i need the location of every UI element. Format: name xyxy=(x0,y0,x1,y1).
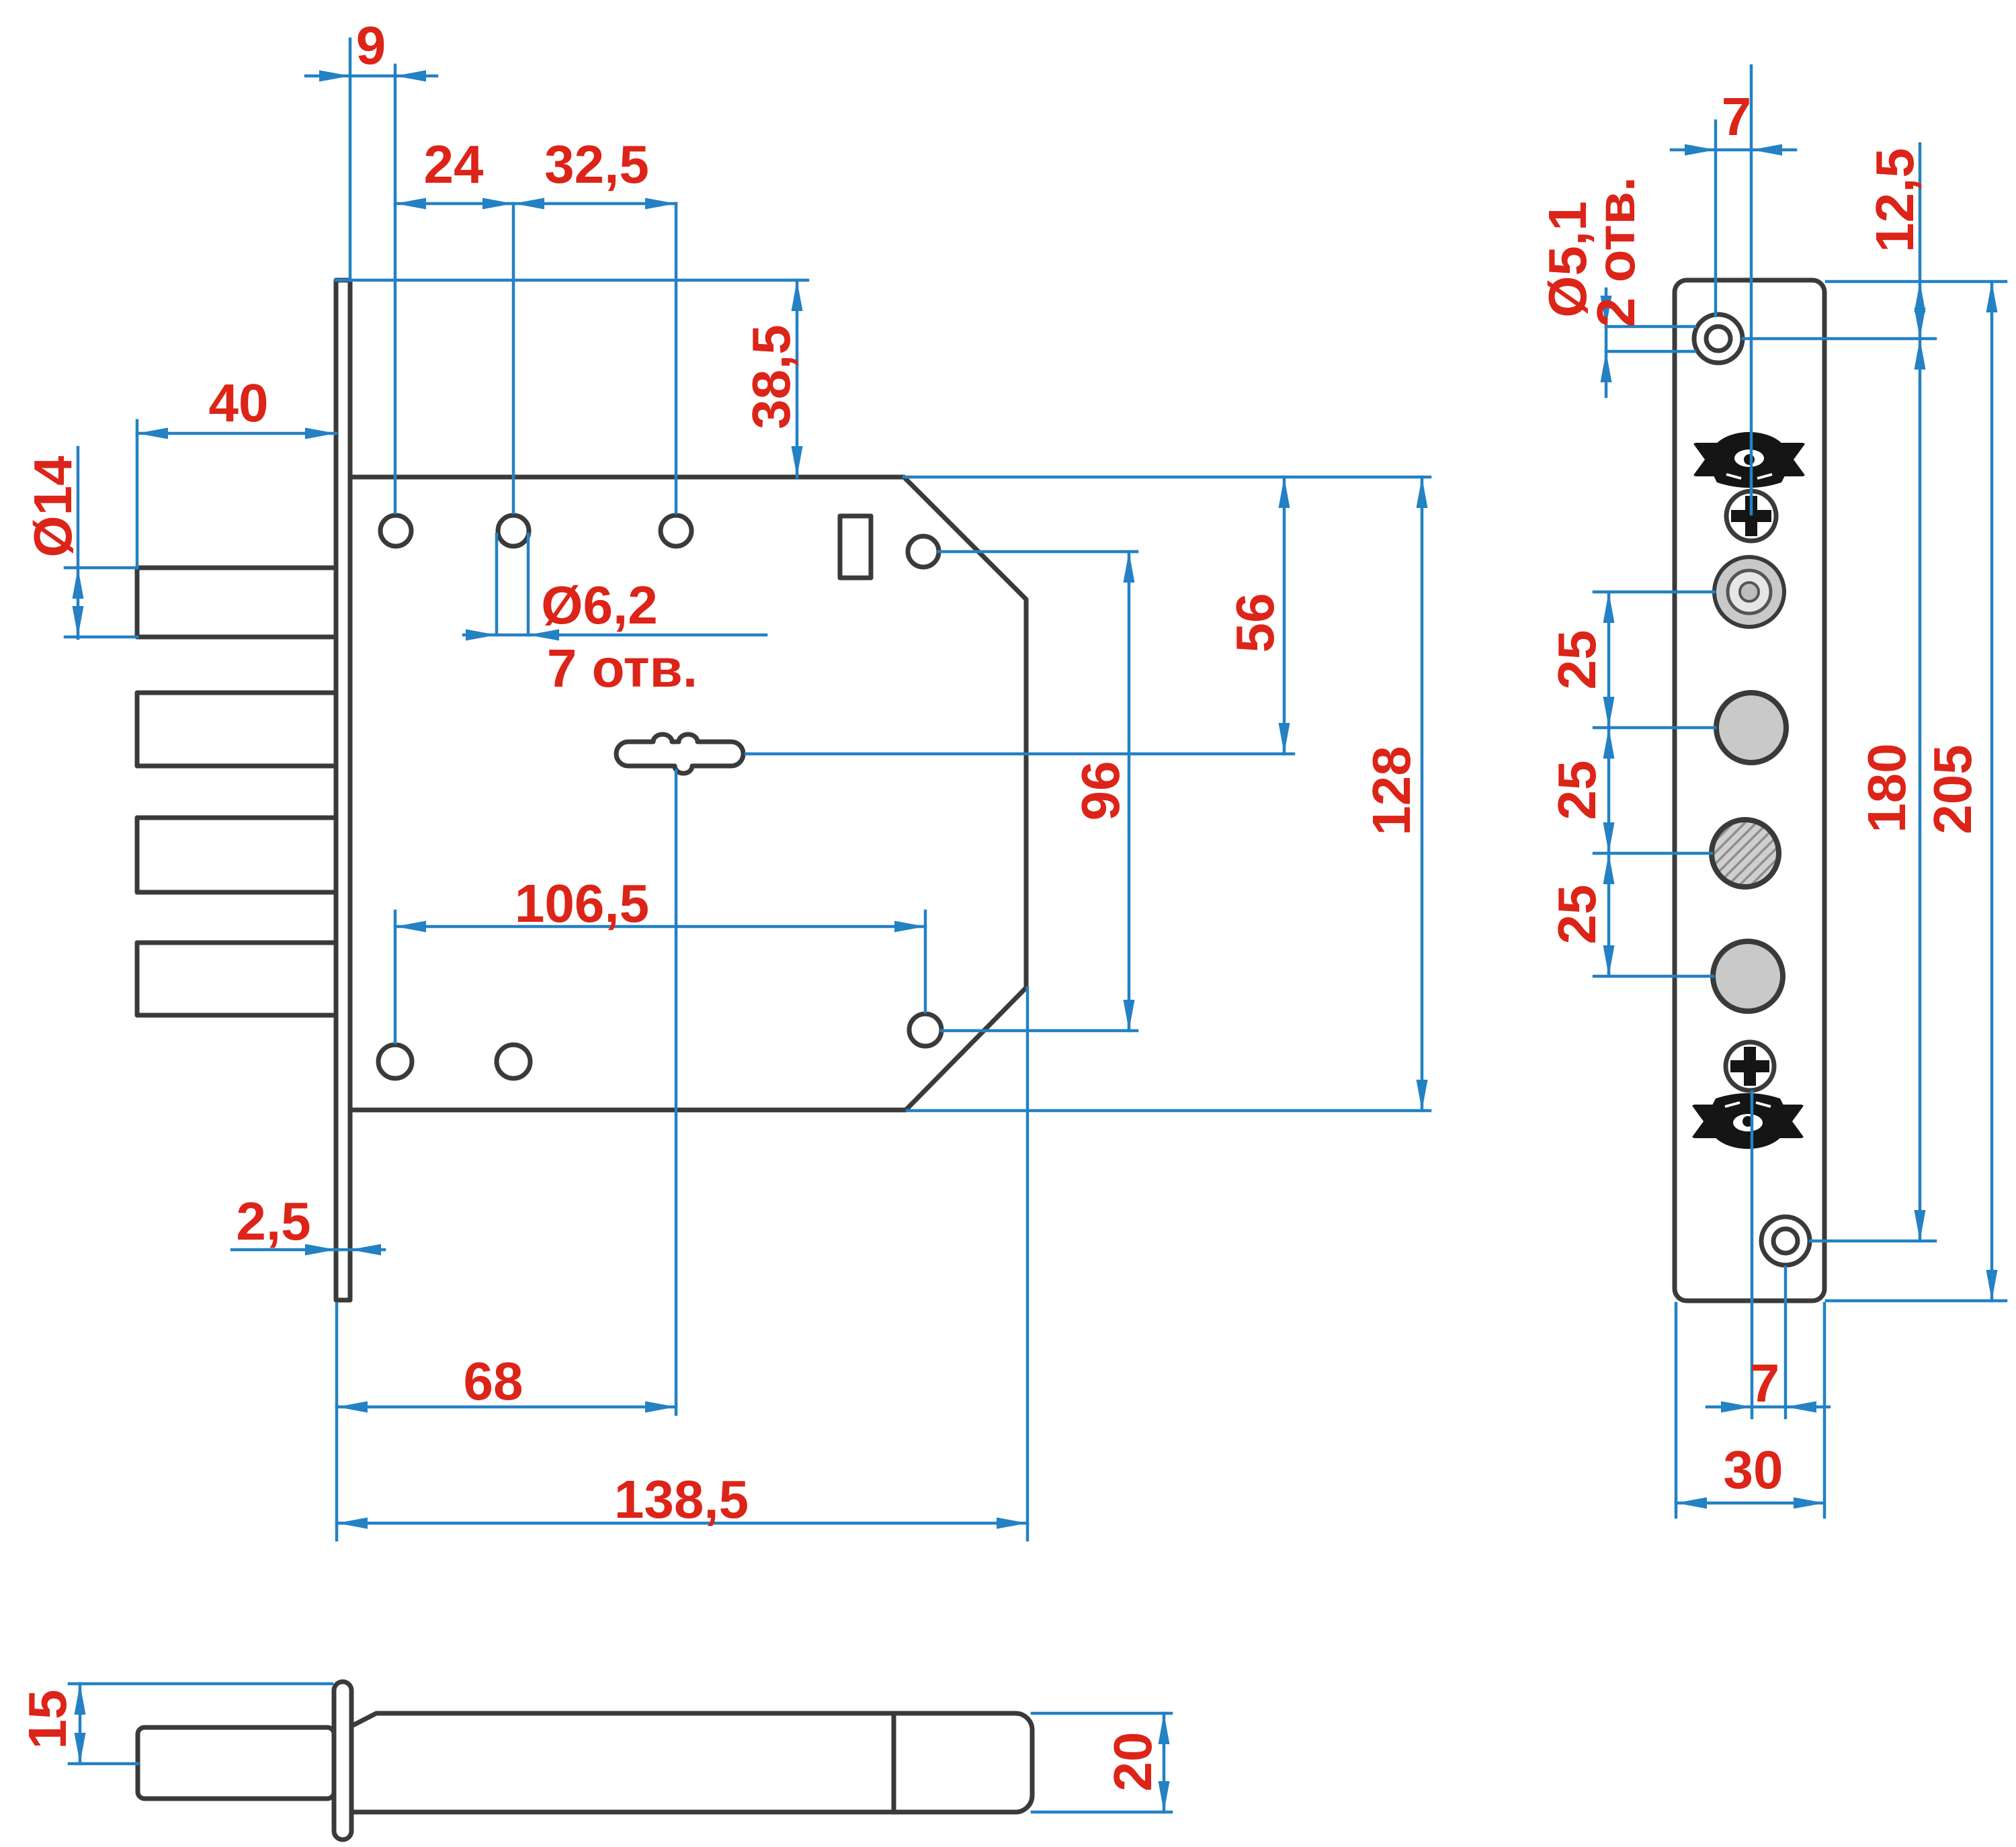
faceplate (edge view) xyxy=(336,280,350,1300)
ext plate bottom corners xyxy=(1676,1303,1824,1517)
leader washer left xyxy=(1594,591,1714,594)
dim 38,5 line xyxy=(796,280,799,477)
leader keyhole right xyxy=(746,753,1294,756)
svg-text:40: 40 xyxy=(209,373,269,433)
ext body right corner down xyxy=(1026,988,1030,1540)
svg-text:12,5: 12,5 xyxy=(1865,148,1925,253)
bolt 3 xyxy=(137,818,336,892)
leader housing bottom right xyxy=(1032,1811,1171,1814)
dim 9 line xyxy=(306,75,437,78)
RIGHT-BLACK xyxy=(1675,280,1824,1301)
dim 128 line xyxy=(1421,477,1424,1111)
bolt 2 xyxy=(137,693,336,766)
dim d5,1 line xyxy=(1605,289,1608,396)
leader hole3 left xyxy=(1594,975,1713,978)
BOTTOM-BLACK xyxy=(138,1682,1032,1840)
ext faceplate right xyxy=(349,39,352,280)
dim 106,5 line xyxy=(395,925,925,929)
leader d6.2 xyxy=(464,634,766,637)
svg-text:25: 25 xyxy=(1547,761,1607,820)
ext hole lower right up xyxy=(924,911,927,1012)
svg-text:2 отв.: 2 отв. xyxy=(1586,177,1646,327)
dim 7 top line xyxy=(1671,148,1796,152)
leader body top right xyxy=(904,476,1430,479)
lock body outline xyxy=(350,477,1026,1110)
ext phillips bottom down xyxy=(1751,1092,1754,1418)
leader faceplate top xyxy=(336,279,808,282)
svg-text:68: 68 xyxy=(464,1351,523,1411)
bolt 1 (top deadbolt) xyxy=(137,568,336,637)
svg-text:25: 25 xyxy=(1547,885,1607,945)
dim 30 line xyxy=(1676,1502,1824,1505)
brand logo bottom (rotated) xyxy=(1691,1093,1805,1149)
ext phillips top xyxy=(1750,66,1753,514)
phillips screw bottom xyxy=(1726,1042,1774,1090)
ext hole1 xyxy=(394,65,397,513)
svg-text:2,5: 2,5 xyxy=(236,1191,310,1251)
ext bolt1 left xyxy=(136,421,139,568)
bolt hole 2 (front, hatched) xyxy=(1712,820,1779,887)
dim 7 bottom line xyxy=(1707,1406,1829,1409)
bolt 4 xyxy=(137,943,336,1015)
leader bolt1 bottom xyxy=(65,636,137,639)
svg-text:32,5: 32,5 xyxy=(544,134,649,194)
leader hole5.1 bottom xyxy=(1606,350,1695,353)
svg-text:106,5: 106,5 xyxy=(515,873,649,933)
leader plate bottom right xyxy=(1826,1299,2006,1303)
leader countersunk right xyxy=(1743,337,1935,341)
dim 15 line xyxy=(79,1684,82,1764)
bolt hole 3 (front) xyxy=(1713,941,1783,1011)
svg-text:Ø6,2: Ø6,2 xyxy=(541,575,657,635)
brand logo top xyxy=(1692,432,1806,488)
screw hole top 1 xyxy=(380,515,411,546)
ext faceplate bottom left xyxy=(335,1303,339,1540)
svg-text:56: 56 xyxy=(1225,593,1285,653)
svg-text:20: 20 xyxy=(1103,1732,1163,1792)
screw hole bottom 2 xyxy=(497,1045,530,1078)
leader body bottom right xyxy=(907,1109,1430,1113)
dim 96 line xyxy=(1128,552,1131,1031)
cylinder washer hole xyxy=(1714,557,1784,627)
ext d6.2 tangents xyxy=(497,534,528,635)
screw hole upper right xyxy=(908,536,939,567)
leader hole2 left xyxy=(1594,852,1712,855)
svg-text:25: 25 xyxy=(1547,630,1607,690)
ext countersunk bottom down xyxy=(1784,1267,1788,1418)
leader pin axis xyxy=(69,1762,138,1766)
leader bolt1 top xyxy=(65,566,137,570)
leader hole lower right xyxy=(941,1029,1137,1033)
svg-text:30: 30 xyxy=(1724,1440,1783,1500)
svg-text:15: 15 xyxy=(17,1690,77,1750)
dim 40 line xyxy=(137,432,336,435)
svg-text:Ø14: Ø14 xyxy=(23,456,83,558)
dim 25 chain line xyxy=(1607,592,1611,976)
svg-text:180: 180 xyxy=(1857,743,1917,832)
leader hole1 left xyxy=(1594,726,1715,730)
dim 2,5 line xyxy=(232,1248,384,1252)
faceplate (side view) xyxy=(334,1682,351,1840)
svg-text:128: 128 xyxy=(1361,746,1421,835)
leader side faceplate top xyxy=(69,1682,332,1686)
svg-text:38,5: 38,5 xyxy=(741,325,801,429)
svg-text:24: 24 xyxy=(424,134,484,194)
screw hole lower right xyxy=(909,1014,941,1046)
screw hole top 2 xyxy=(498,515,529,546)
ext countersunk top xyxy=(1714,121,1718,316)
keyhole (suvald key slot) xyxy=(616,734,743,773)
svg-text:7: 7 xyxy=(1722,87,1752,146)
faceplate front view xyxy=(1675,280,1824,1301)
leader bottom screw right xyxy=(1810,1240,1935,1243)
bolt pin (side view) xyxy=(138,1727,334,1799)
MAIN-BLACK xyxy=(137,280,1026,1300)
ext hole2 xyxy=(512,204,515,513)
housing divider line xyxy=(892,1713,896,1812)
dim 205 line xyxy=(1990,282,1994,1301)
ext hole bottom1 up xyxy=(394,911,397,1043)
svg-text:205: 205 xyxy=(1923,744,1982,834)
dim 68 line xyxy=(337,1406,676,1409)
leader keyhole down xyxy=(675,771,678,1414)
dim 24 / 32,5 line xyxy=(395,202,676,206)
screw hole top 3 xyxy=(661,515,691,546)
dim 12,5 and 180 line xyxy=(1919,144,1922,1241)
ext hole3 xyxy=(675,204,678,513)
leader housing top right xyxy=(1032,1712,1171,1715)
dim 138,5 line xyxy=(337,1522,1027,1525)
svg-text:9: 9 xyxy=(356,15,386,75)
dim 20 line xyxy=(1163,1713,1166,1812)
screw hole bottom 1 xyxy=(378,1045,412,1078)
bolt hole 1 (front) xyxy=(1716,693,1786,763)
slot near top right xyxy=(840,516,871,578)
dim 56 line xyxy=(1283,477,1286,754)
countersunk screw hole top (d5.1) xyxy=(1694,314,1742,363)
leader hole5.1 top xyxy=(1606,325,1695,329)
svg-text:138,5: 138,5 xyxy=(614,1469,749,1529)
svg-text:96: 96 xyxy=(1070,761,1130,821)
svg-text:7: 7 xyxy=(1750,1353,1780,1413)
leader hole upper right xyxy=(939,550,1137,554)
svg-text:7 отв.: 7 отв. xyxy=(547,638,698,698)
countersunk screw hole bottom xyxy=(1761,1217,1810,1265)
bolt housing body (side view) xyxy=(351,1713,1032,1812)
phillips screw top xyxy=(1726,491,1776,541)
leader plate top right xyxy=(1826,280,2006,284)
dim d14 line xyxy=(77,447,80,638)
